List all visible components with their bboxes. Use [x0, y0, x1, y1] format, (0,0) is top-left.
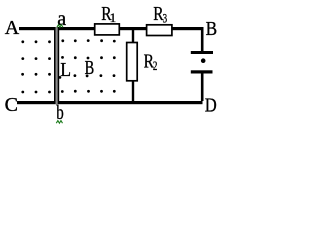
svg-text:3: 3 — [163, 10, 168, 25]
svg-text:2: 2 — [153, 58, 158, 73]
svg-text:a: a — [57, 8, 66, 30]
svg-text:1: 1 — [110, 10, 117, 25]
svg-text:D: D — [205, 94, 217, 116]
svg-text:B: B — [206, 18, 218, 40]
svg-text:A: A — [5, 17, 20, 39]
svg-text:L: L — [60, 59, 71, 81]
svg-text:B: B — [85, 57, 95, 79]
svg-text:C: C — [5, 94, 18, 116]
